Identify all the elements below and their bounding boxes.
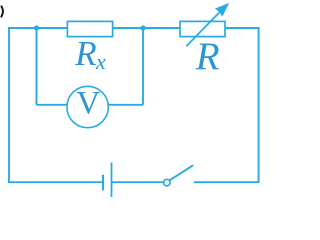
svg-text:R: R [74,34,96,73]
wire left side vertical [8,27,10,183]
node junction dot left [34,25,39,30]
svg-text:V: V [76,86,100,122]
wire voltmeter branch right vertical [142,28,144,105]
wire bottom right segment (switch to right) [194,181,259,183]
resistor Rx body [67,21,112,36]
wire voltmeter branch left vertical [36,28,38,105]
battery cell long plate [111,163,113,198]
rheostat arrow shaft [186,12,219,46]
wire voltmeter branch left horizontal [37,104,81,106]
wire top horizontal [8,27,259,29]
switch pivot circle [164,179,171,186]
wire right side vertical [258,27,260,183]
switch lever [170,165,193,180]
svg-text:x: x [95,49,106,74]
wire voltmeter branch right horizontal [95,104,143,106]
node junction dot right [140,25,145,30]
label ")" fragment top-left [1,6,3,18]
resistor R (rheostat) body [180,21,225,36]
voltmeter U1 circle [67,86,108,127]
wire bottom middle segment (battery to switch) [112,181,165,183]
battery cell short plate [102,175,104,191]
rheostat arrow head [215,3,229,17]
svg-text:R: R [195,35,220,78]
wire bottom left segment [8,181,102,183]
